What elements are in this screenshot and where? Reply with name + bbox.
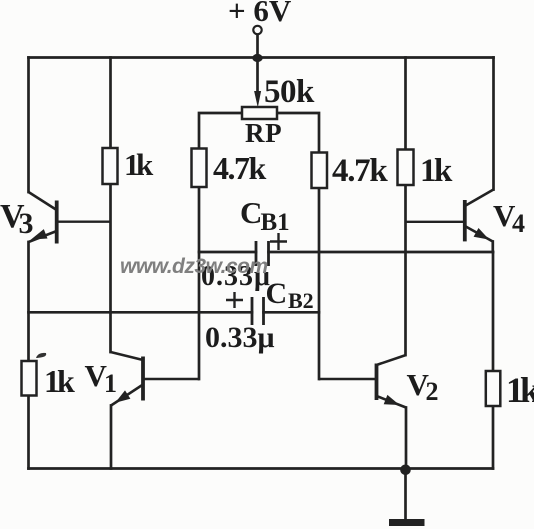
svg-text:3: 3 bbox=[19, 207, 34, 240]
resistor 1k top-right bbox=[398, 150, 414, 186]
wire right rail upper bbox=[492, 58, 495, 190]
transistor V3 bbox=[29, 192, 111, 244]
wire CB2 left bbox=[29, 311, 253, 314]
svg-text:50k: 50k bbox=[264, 74, 315, 110]
potentiometer RP wiper arrow bbox=[254, 91, 261, 108]
resistor 1k top-left bbox=[103, 148, 118, 184]
wire CB2 right bbox=[264, 311, 320, 314]
wire x110 mid bbox=[109, 184, 112, 352]
wire left rail lower bbox=[27, 242, 30, 361]
svg-text:1k: 1k bbox=[506, 370, 534, 410]
svg-text:0.33μ: 0.33μ bbox=[205, 321, 275, 354]
resistor 4.7k right bbox=[312, 153, 328, 189]
svg-text:1k: 1k bbox=[420, 153, 453, 189]
capacitor CB2 plates bbox=[252, 297, 264, 325]
transistor V1 bbox=[111, 352, 200, 406]
wire ground stem bbox=[404, 470, 407, 520]
svg-text:+ 6V: + 6V bbox=[228, 0, 292, 28]
wire bottom rail bbox=[29, 467, 494, 470]
wire x199 vertical bbox=[198, 187, 201, 379]
wire x319 vertical bbox=[318, 188, 321, 379]
wire x405 upper bbox=[404, 58, 407, 150]
wire RP left bbox=[199, 113, 242, 149]
capacitor CB1 polarity + bbox=[270, 233, 287, 250]
wire CB1 left bbox=[199, 251, 256, 254]
wire left rail upper bbox=[27, 58, 30, 193]
wire RP right bbox=[277, 113, 319, 153]
node +6V terminal bbox=[253, 26, 261, 34]
capacitor CB1 plates bbox=[256, 241, 269, 266]
wire V4 emitter stub bbox=[491, 242, 494, 253]
transistor V2 bbox=[319, 355, 406, 408]
svg-text:2: 2 bbox=[426, 377, 439, 406]
potentiometer RP body bbox=[242, 107, 277, 119]
wire CB1 right bbox=[269, 251, 494, 254]
wire right rail mid bbox=[492, 252, 495, 371]
wire right rail bottom bbox=[492, 406, 495, 469]
svg-text:C: C bbox=[240, 195, 262, 230]
blob artifact above bottom-left 1k bbox=[36, 353, 46, 358]
wire V1 emitter lower bbox=[110, 406, 113, 469]
wire left rail bottom bbox=[27, 396, 30, 469]
svg-text:4: 4 bbox=[512, 209, 525, 238]
resistor 4.7k left bbox=[192, 149, 207, 188]
wire +6V stem bbox=[256, 35, 259, 98]
wire x405 mid bbox=[404, 185, 407, 355]
svg-text:1: 1 bbox=[104, 369, 117, 398]
resistor 1k bottom-right bbox=[486, 371, 501, 406]
svg-text:1k: 1k bbox=[124, 147, 154, 182]
svg-text:C: C bbox=[266, 277, 288, 310]
resistor 1k bottom-left bbox=[22, 361, 37, 396]
svg-text:4.7k: 4.7k bbox=[332, 153, 388, 189]
capacitor CB2 polarity + bbox=[226, 292, 243, 308]
svg-text:B2: B2 bbox=[288, 288, 314, 313]
wire x110 upper bbox=[109, 58, 112, 149]
svg-text:RP: RP bbox=[245, 118, 282, 148]
ground bbox=[389, 519, 425, 526]
wire top rail bbox=[29, 56, 494, 59]
transistor V4 bbox=[406, 190, 494, 242]
wire V2 emitter lower bbox=[405, 408, 408, 469]
svg-text:www.dz3w.com: www.dz3w.com bbox=[120, 255, 268, 278]
svg-text:1k: 1k bbox=[44, 363, 75, 399]
svg-text:B1: B1 bbox=[261, 209, 290, 236]
svg-text:4.7k: 4.7k bbox=[213, 150, 267, 186]
node bottom junction dot bbox=[400, 465, 411, 476]
node top junction dot bbox=[252, 54, 262, 62]
